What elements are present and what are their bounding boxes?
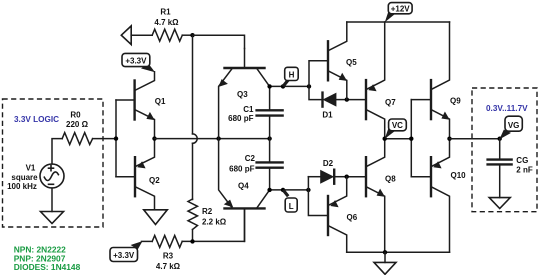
wire flag to R3 bbox=[142, 240, 153, 242]
wire bases vertical bbox=[410, 100, 412, 177]
flag H bbox=[283, 67, 298, 86]
transistor Q10 PNP bbox=[431, 139, 450, 253]
wire junction to Q3 base bbox=[193, 35, 245, 48]
wire mid row bbox=[155, 138, 270, 140]
svg-text:Q4: Q4 bbox=[238, 181, 249, 190]
transistor Q3 NPN bbox=[219, 49, 270, 139]
ground CG bbox=[489, 198, 510, 209]
svg-text:VG: VG bbox=[508, 121, 520, 130]
wire V1 bottom bbox=[51, 188, 53, 212]
voltage source V1 bbox=[40, 164, 64, 188]
capacitor C1 bbox=[257, 86, 283, 138]
svg-text:R0: R0 bbox=[70, 111, 81, 120]
node VG bbox=[498, 137, 502, 141]
node R2/R3 junction bbox=[190, 239, 194, 243]
svg-text:R2: R2 bbox=[202, 207, 213, 216]
wire hop to R2 bbox=[192, 143, 194, 199]
wire VG row bbox=[450, 138, 500, 140]
flag +12V bbox=[385, 3, 412, 23]
svg-text:0.3V..11.7V: 0.3V..11.7V bbox=[486, 104, 528, 113]
svg-text:+12V: +12V bbox=[391, 4, 411, 13]
wire rail to ground bbox=[384, 252, 386, 262]
wire Q9 base bbox=[411, 99, 431, 101]
svg-text:680 pF: 680 pF bbox=[228, 114, 253, 123]
resistor R2 bbox=[188, 199, 198, 230]
svg-text:CG: CG bbox=[516, 156, 528, 165]
svg-text:Q10: Q10 bbox=[451, 171, 467, 180]
node base bbox=[114, 136, 118, 140]
wire base vertical bbox=[115, 100, 117, 177]
svg-text:Q5: Q5 bbox=[346, 58, 357, 67]
svg-text:R3: R3 bbox=[163, 251, 174, 260]
wire R3 to Q4 base bbox=[182, 208, 244, 241]
transistor Q8 NPN bbox=[366, 139, 385, 253]
transistor Q4 PNP bbox=[219, 139, 270, 242]
wire to D2 bbox=[308, 176, 320, 178]
svg-text:V1: V1 bbox=[26, 164, 36, 173]
wire VG to CG bbox=[499, 139, 501, 159]
svg-text:L: L bbox=[289, 202, 294, 211]
transistor Q9 NPN bbox=[431, 22, 450, 139]
svg-text:C1: C1 bbox=[243, 105, 254, 114]
resistor R1 bbox=[152, 29, 182, 41]
wire L to Q6 base bbox=[308, 190, 328, 216]
resistor R0 bbox=[62, 133, 92, 145]
dashed box output 0.3V..11.7V bbox=[472, 88, 537, 212]
flag VC bbox=[385, 119, 407, 139]
svg-text:2 nF: 2 nF bbox=[516, 166, 533, 175]
flag +3.3V upper bbox=[122, 53, 155, 72]
wire bottom ground rail bbox=[347, 251, 450, 253]
svg-text:Q2: Q2 bbox=[149, 176, 160, 185]
node H tail bbox=[281, 84, 285, 88]
svg-text:680 pF: 680 pF bbox=[229, 165, 254, 174]
node output emitters bbox=[447, 137, 451, 141]
svg-text:2.2 kΩ: 2.2 kΩ bbox=[202, 218, 227, 227]
node L tail bbox=[281, 188, 285, 192]
flag L bbox=[283, 190, 297, 212]
port arrow input bbox=[121, 26, 131, 45]
svg-text:C2: C2 bbox=[245, 154, 256, 163]
wire junction down to hop bbox=[192, 35, 194, 134]
transistor Q5 NPN bbox=[328, 22, 347, 100]
wire R1 to junction bbox=[182, 34, 192, 36]
dashed box 3.3V LOGIC bbox=[3, 99, 104, 227]
wire arrow to R1 bbox=[131, 34, 152, 36]
wire VC row bbox=[385, 138, 412, 140]
ground main bbox=[374, 262, 396, 274]
capacitor C2 bbox=[257, 139, 283, 190]
svg-text:+3.3V: +3.3V bbox=[113, 251, 135, 260]
svg-text:Q1: Q1 bbox=[155, 97, 166, 106]
node Q3 collector / C1 bbox=[267, 84, 271, 88]
svg-text:3.3V LOGIC: 3.3V LOGIC bbox=[14, 115, 59, 124]
svg-text:Q7: Q7 bbox=[385, 98, 396, 107]
capacitor CG bbox=[488, 160, 512, 198]
diode D1 bbox=[323, 93, 347, 107]
svg-text:R1: R1 bbox=[160, 8, 171, 17]
svg-text:220 Ω: 220 Ω bbox=[66, 120, 89, 129]
node L junction bbox=[306, 188, 310, 192]
transistor Q7 PNP bbox=[366, 22, 385, 139]
svg-text:100 kHz: 100 kHz bbox=[7, 182, 37, 191]
svg-text:+3.3V: +3.3V bbox=[125, 57, 147, 66]
node ground rail bbox=[383, 250, 387, 254]
wire D1 to Q7 base bbox=[347, 99, 366, 101]
wire H down to D1 bbox=[309, 86, 323, 99]
wire H row bbox=[270, 85, 309, 87]
svg-text:4.7 kΩ: 4.7 kΩ bbox=[154, 18, 179, 27]
wire R0 to base node bbox=[93, 138, 116, 140]
node bases bbox=[409, 137, 413, 141]
node D2/Q6 emitter bbox=[345, 175, 349, 179]
node VC bbox=[383, 137, 387, 141]
wire +12V top rail bbox=[347, 21, 450, 23]
transistor Q6 PNP bbox=[328, 177, 347, 253]
transistor Q2 PNP bbox=[116, 139, 155, 210]
svg-text:Q3: Q3 bbox=[237, 90, 248, 99]
wire Q10 base bbox=[411, 176, 431, 178]
svg-text:Q6: Q6 bbox=[347, 213, 358, 222]
svg-text:VC: VC bbox=[392, 121, 403, 130]
node H junction bbox=[307, 84, 311, 88]
node emitters bbox=[152, 136, 156, 140]
wire R2 to R3 row bbox=[192, 230, 194, 242]
svg-text:4.7 kΩ: 4.7 kΩ bbox=[156, 262, 181, 271]
svg-text:Q9: Q9 bbox=[450, 96, 461, 105]
wire hop over mid row bbox=[193, 134, 198, 143]
flag +3.3V lower bbox=[110, 241, 143, 261]
wire H to Q5 base bbox=[309, 61, 328, 87]
svg-text:Q8: Q8 bbox=[385, 174, 396, 183]
svg-text:square: square bbox=[11, 173, 38, 182]
svg-text:D2: D2 bbox=[323, 159, 334, 168]
svg-text:D1: D1 bbox=[322, 110, 333, 119]
wire D2 to Q8 base bbox=[347, 176, 366, 178]
flag VG bbox=[499, 116, 522, 139]
wire L row bbox=[270, 189, 309, 191]
diode D2 bbox=[320, 170, 347, 184]
node Q4 collector / C2 bbox=[267, 188, 271, 192]
node mid C1C2 bbox=[267, 136, 271, 140]
svg-text:DIODES: 1N4148: DIODES: 1N4148 bbox=[14, 262, 81, 272]
ground Q2 bbox=[144, 210, 168, 225]
wire D2 row left vertical bbox=[307, 177, 309, 190]
resistor R3 bbox=[152, 235, 182, 247]
ground V1 bbox=[41, 212, 64, 224]
transistor Q1 NPN bbox=[116, 72, 155, 139]
node D1/Q5 emitter bbox=[345, 97, 349, 101]
node R1 junction bbox=[190, 33, 194, 37]
wire V1 top to R0 bbox=[52, 139, 62, 164]
node mid-left legs bbox=[216, 136, 220, 140]
svg-text:H: H bbox=[289, 70, 295, 79]
